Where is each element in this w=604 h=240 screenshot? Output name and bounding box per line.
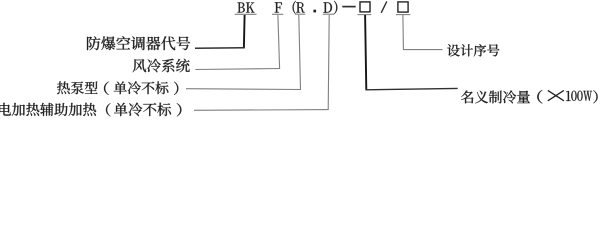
underline under BK — [235, 13, 257, 15]
label 4: unmarked if cooling-only — [114, 103, 171, 117]
label 3 open parenthesis — [104, 82, 109, 95]
underline under box 2 — [396, 14, 410, 16]
digit 1 — [566, 91, 571, 101]
leader horizontal to label 1 — [195, 47, 245, 49]
label 4: electric auxiliary heating — [0, 103, 96, 116]
placeholder box 2 (design no.) — [398, 2, 408, 12]
label 4 open parenthesis — [106, 103, 111, 116]
label 3 close parenthesis — [174, 82, 178, 95]
digit 0 — [577, 91, 582, 101]
digit 0 — [571, 91, 576, 101]
code letter F — [275, 2, 282, 12]
placeholder box 1 (capacity) — [360, 2, 370, 12]
slash separator — [381, 1, 387, 12]
label 3: heat pump type — [57, 81, 98, 94]
close fullwidth parenthesis — [593, 90, 597, 103]
underline under box 1 — [358, 14, 372, 16]
underline under F — [272, 13, 283, 15]
code letter D — [323, 2, 332, 12]
code letter R — [296, 2, 304, 12]
leader horizontal to label 3 — [186, 88, 301, 91]
letter W — [583, 91, 592, 101]
leader vertical from R — [299, 15, 301, 89]
label 4 close parenthesis — [177, 103, 182, 116]
em dash connector — [342, 6, 355, 8]
leader vertical from D — [328, 15, 329, 110]
multiplication sign stroke 2 — [548, 90, 564, 100]
open parenthesis — [293, 1, 296, 14]
leader vertical from BK — [243, 15, 246, 48]
leader horizontal to label 2 — [195, 69, 280, 70]
label 2: air-cooled system — [133, 59, 190, 73]
leader vertical from box 1 — [365, 15, 366, 90]
label 5: design serial number — [447, 44, 499, 56]
underline under R — [295, 13, 305, 15]
label 3: unmarked if cooling-only — [114, 81, 169, 94]
leader horizontal to label 5 — [403, 49, 443, 51]
code letters BK — [237, 3, 254, 13]
multiplication sign stroke 1 — [548, 90, 564, 100]
leader horizontal to label 4 — [194, 109, 329, 112]
leader vertical from box 2 — [402, 15, 405, 50]
leader horizontal to label 6 — [365, 88, 457, 89]
leader vertical from F — [278, 15, 280, 69]
label 1: explosion-proof air conditioner code — [87, 36, 190, 50]
open fullwidth parenthesis — [537, 90, 542, 104]
period separator — [313, 10, 316, 13]
label 6: nominal cooling capacity — [461, 90, 530, 103]
close parenthesis — [334, 1, 337, 14]
underline under D — [323, 13, 335, 15]
